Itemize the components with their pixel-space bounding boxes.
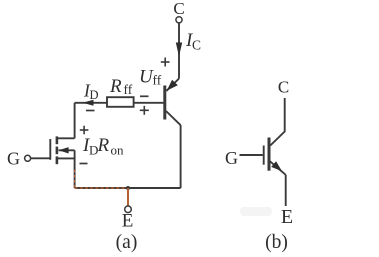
label R_ff [109,76,133,97]
svg-text:ff: ff [124,82,133,97]
svg-text:E: E [122,211,134,232]
IGBT collector lead [270,98,284,146]
wire base lead [134,102,164,104]
wire collector lead [178,23,180,79]
IGBT emitter vertical lead [285,175,287,206]
IGBT gate bar [263,146,265,165]
MOSFET V2 channel segment top [56,136,59,144]
wire bottom orange tint [75,187,128,189]
node junction E [126,186,130,190]
svg-text:G: G [225,148,238,168]
svg-text:G: G [7,149,20,169]
minus sign (I_D R_on bottom) [80,163,88,165]
MOSFET V2 channel segment bottom [56,156,59,164]
MOSFET V2 channel segment middle [56,147,59,155]
svg-text:C: C [278,78,289,97]
svg-text:ff: ff [153,73,162,88]
label U_ff [139,67,162,88]
IGBT emitter lead with arrow [270,161,286,175]
IGBT gate lead [240,154,263,156]
terminal C [173,0,184,23]
scan smudge artifact [240,207,272,216]
MOSFET V2 drain lead [57,137,75,139]
plus sign (R_ff right) [140,106,149,115]
minus sign (U_ff) [140,95,149,97]
transistor V1 emitter lead with arrow [166,79,179,91]
svg-text:R: R [109,76,122,97]
MOSFET V2 source lead [57,157,75,159]
svg-text:C: C [192,38,201,53]
resistor R_ff [107,97,134,107]
wire gate lead [31,157,51,159]
wire E stub [127,188,129,206]
wire left vertical (corner to MOSFET drain) [74,103,76,139]
plus sign (I_D R_on top) [80,126,89,135]
svg-text:R: R [97,135,110,156]
transistor V1 collector lead [166,111,181,125]
IGBT main bar [268,138,271,171]
wire source vertical [74,150,76,188]
wire left vertical orange tint [74,170,76,188]
svg-text:D: D [90,88,99,102]
label I_D R_on [82,135,124,158]
terminal G [7,149,31,169]
current arrow I_C [176,30,201,57]
svg-text:C: C [173,0,184,18]
wire left of resistor [75,102,107,104]
svg-text:E: E [281,206,293,228]
svg-text:(b): (b) [265,232,288,253]
wire collector vertical right [180,125,182,188]
plus sign (U_ff top polarity) [161,58,170,67]
terminal E [122,206,134,232]
MOSFET V2 body arrow [59,147,75,153]
current arrow I_D [83,81,99,106]
MOSFET V2: gate bar [49,139,51,160]
transistor V1 (PNP): base bar [163,86,166,120]
svg-text:(a): (a) [116,232,138,253]
wire bottom [75,187,128,189]
svg-text:on: on [111,143,125,158]
minus sign (R_ff left) [86,110,95,112]
